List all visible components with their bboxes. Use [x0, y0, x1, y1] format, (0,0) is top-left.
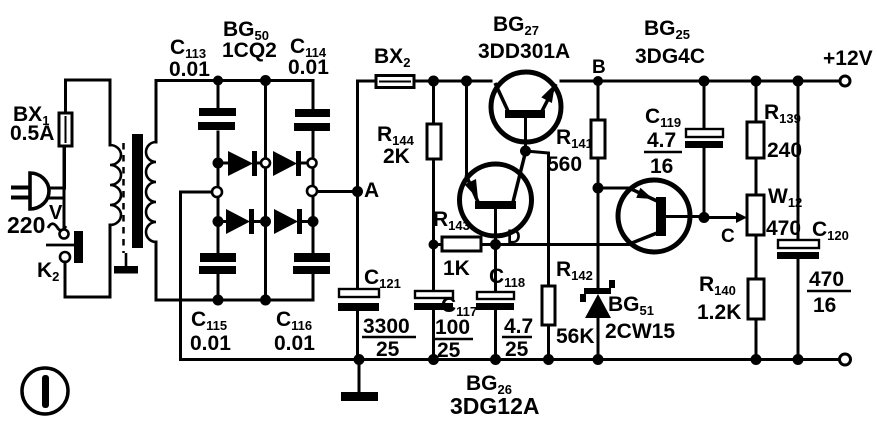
- junction upper diode row: [213, 158, 317, 169]
- transformer secondary winding: [146, 142, 156, 242]
- wire BG27 base to R142 top: [526, 151, 549, 286]
- ground under C121: [341, 360, 378, 402]
- junction dots ground rail: [354, 354, 804, 365]
- svg-text:3DG4C: 3DG4C: [635, 45, 705, 68]
- ground rail bottom: [181, 358, 840, 361]
- junction open circle bridge mid-right: [307, 186, 317, 196]
- resistor R143: [434, 237, 496, 251]
- fuse BX2: [358, 76, 492, 88]
- svg-text:220: 220: [7, 212, 45, 238]
- switch K2: [46, 230, 83, 264]
- node B: [593, 76, 603, 86]
- svg-text:3300: 3300: [363, 315, 410, 338]
- svg-text:0.01: 0.01: [274, 332, 315, 355]
- svg-text:3DG12A: 3DG12A: [450, 393, 539, 419]
- svg-text:B: B: [592, 57, 606, 78]
- wire bridge DC plus to node A: [313, 190, 358, 193]
- svg-text:V: V: [49, 202, 63, 224]
- svg-text:A: A: [364, 179, 379, 202]
- capacitor C114: [294, 109, 330, 131]
- junction lower diode row: [213, 216, 319, 227]
- svg-text:C: C: [721, 226, 735, 247]
- node C: [699, 212, 710, 223]
- wire zener branch vertical: [597, 188, 600, 289]
- junction dot C119 top: [699, 76, 710, 87]
- wire switch to transformer primary bottom: [65, 225, 110, 297]
- mains plug body: [30, 173, 49, 209]
- transformer primary winding: [110, 145, 121, 225]
- svg-text:0.01: 0.01: [190, 332, 231, 355]
- output rail from BG27 emitter to +12V: [561, 80, 840, 83]
- wire node C to W12 wiper: [704, 212, 747, 223]
- svg-text:100: 100: [435, 316, 470, 339]
- ground at transformer core: [114, 253, 138, 274]
- svg-text:16: 16: [650, 155, 673, 178]
- svg-text:470: 470: [766, 217, 801, 240]
- svg-text:1K: 1K: [443, 257, 470, 280]
- svg-text:1CQ2: 1CQ2: [222, 39, 277, 62]
- wire bridge left vertical: [217, 81, 220, 301]
- capacitor C113: [198, 108, 236, 130]
- bottom terminal: [840, 354, 851, 365]
- diode D2 upper-right: [273, 151, 308, 176]
- svg-text:+12V: +12V: [823, 47, 873, 70]
- wire bridge right vertical: [312, 81, 315, 301]
- wire mains plug top prong to fuse: [11, 146, 65, 190]
- wire secondary bottom to bridge AC bottom rail: [156, 242, 313, 300]
- svg-text:56K: 56K: [556, 325, 595, 348]
- wire node D line to BG25 collector: [496, 243, 629, 246]
- junction dots AC bottom rail: [213, 295, 272, 306]
- svg-text:3DD301A: 3DD301A: [478, 40, 570, 63]
- svg-text:25: 25: [376, 338, 400, 361]
- diode D4 lower-right: [274, 209, 313, 234]
- output terminal +12V: [840, 76, 850, 86]
- wire DC minus from bridge to ground rail: [181, 192, 218, 360]
- capacitor C121: [338, 289, 379, 311]
- capacitor C119: [685, 81, 723, 218]
- label C121 value 3300/25: [362, 315, 416, 361]
- svg-text:4.7: 4.7: [647, 129, 676, 152]
- transistor BG25: [618, 180, 701, 252]
- label C117 value 100/25: [433, 316, 473, 362]
- junction dot R139 top: [751, 76, 762, 87]
- label C119 value 4.7/16: [644, 129, 682, 178]
- resistor R139: [747, 81, 764, 195]
- label C120 value 470/16: [807, 268, 851, 317]
- diode D1 upper-left: [218, 151, 261, 176]
- wire secondary top to bridge top rail: [156, 81, 313, 143]
- figure number circle 1: [22, 368, 68, 414]
- junction open circle bridge mid-left: [212, 187, 222, 197]
- diode D3 lower-left: [218, 209, 261, 234]
- capacitor C120: [777, 81, 819, 360]
- transformer core dashed line: [122, 143, 125, 253]
- node D: [490, 239, 501, 250]
- wire mains plug bottom prong to switch: [11, 146, 64, 229]
- svg-text:0.5A: 0.5A: [10, 122, 54, 145]
- wire bridge center vertical: [264, 81, 267, 301]
- svg-text:16: 16: [813, 294, 836, 317]
- wire R141 bottom to BG25 emitter: [598, 187, 629, 190]
- svg-text:25: 25: [505, 338, 529, 361]
- junction dot BG27 base: [520, 146, 531, 157]
- junction dot R144 top: [428, 76, 439, 87]
- svg-text:560: 560: [547, 153, 582, 176]
- transistor BG27: [491, 72, 561, 151]
- resistor R141: [591, 81, 605, 188]
- svg-text:1.2K: 1.2K: [697, 301, 741, 324]
- transistor BG26: [460, 152, 532, 245]
- svg-text:0.01: 0.01: [169, 58, 210, 81]
- svg-text:0.01: 0.01: [288, 56, 329, 79]
- svg-text:2K: 2K: [383, 145, 410, 168]
- resistor R142: [542, 286, 555, 360]
- zener diode BG51: [580, 280, 615, 360]
- capacitor C116: [293, 253, 330, 274]
- capacitor C115: [199, 253, 236, 274]
- junction dots bridge top rail: [213, 75, 271, 86]
- svg-text:4.7: 4.7: [504, 315, 533, 338]
- resistor R140: [748, 279, 764, 360]
- svg-text:2CW15: 2CW15: [605, 320, 675, 343]
- junction dot R143 left: [429, 240, 439, 250]
- wire fuse top to transformer primary top: [66, 80, 111, 145]
- transformer core bar: [132, 134, 143, 248]
- junction dot C120 top: [793, 76, 804, 87]
- potentiometer W12: [747, 195, 764, 279]
- fuse BX1: [59, 80, 72, 146]
- resistor R144: [427, 81, 441, 291]
- wire node A vertical: BX2 rail down through C121 to ground rail: [356, 81, 359, 360]
- capacitor C117: [414, 291, 453, 360]
- label C118 value 4.7/25: [502, 315, 533, 361]
- capacitor C118: [476, 245, 514, 360]
- junction dot R141 bottom: [593, 183, 604, 194]
- wire BG26 collector-side vertical from rail: [461, 76, 472, 176]
- node A: [352, 186, 363, 197]
- label 220V~: [7, 202, 66, 238]
- svg-text:470: 470: [809, 268, 844, 291]
